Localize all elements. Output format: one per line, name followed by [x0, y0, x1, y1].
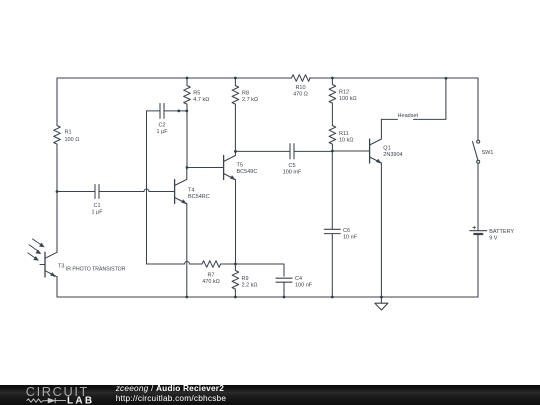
svg-text:C5: C5: [288, 163, 295, 169]
svg-text:zceeong / Audio Reciever2: zceeong / Audio Reciever2: [115, 383, 225, 393]
svg-text:T4: T4: [188, 187, 194, 193]
wire top rail: [57, 77, 478, 79]
svg-text:100 nF: 100 nF: [295, 283, 313, 289]
svg-text:SW1: SW1: [482, 150, 494, 156]
svg-text:4.7 kΩ: 4.7 kΩ: [193, 97, 209, 103]
svg-text:R12: R12: [339, 90, 349, 96]
svg-text:http://circuitlab.com/cbhcsbe: http://circuitlab.com/cbhcsbe: [116, 393, 227, 403]
wire R11 junction to Q1 base: [332, 150, 369, 152]
svg-text:C4: C4: [295, 276, 302, 282]
wire right rail (top): [477, 78, 479, 140]
svg-text:IR PHOTO TRANSISTOR: IR PHOTO TRANSISTOR: [66, 267, 126, 273]
svg-text:Headset: Headset: [398, 113, 419, 119]
svg-text:100 kΩ: 100 kΩ: [339, 96, 357, 102]
svg-text:R10: R10: [295, 85, 305, 91]
svg-text:C6: C6: [343, 228, 350, 234]
svg-text:2.2 kΩ: 2.2 kΩ: [242, 282, 258, 288]
svg-text:BC54RC: BC54RC: [188, 194, 210, 200]
svg-text:T3: T3: [58, 264, 64, 270]
resistor R10: [292, 75, 311, 82]
svg-text:C1: C1: [93, 203, 100, 209]
resistor R12: [329, 78, 336, 126]
svg-text:R5: R5: [193, 90, 200, 96]
capacitor C2: [147, 103, 188, 118]
svg-text:C2: C2: [158, 122, 165, 128]
svg-text:9 V: 9 V: [489, 235, 498, 241]
svg-text:R7: R7: [207, 273, 214, 279]
wire C2 loop to R7 with hop: [147, 262, 203, 265]
resistor R7: [202, 261, 235, 268]
capacitor C1: [95, 185, 99, 199]
resistor R9: [232, 264, 239, 297]
transistor T3 photo: [44, 252, 46, 277]
svg-text:10 kΩ: 10 kΩ: [339, 137, 354, 143]
svg-text:BC549C: BC549C: [237, 169, 258, 175]
svg-text:470 kΩ: 470 kΩ: [202, 279, 220, 285]
svg-text:T5: T5: [237, 163, 243, 169]
svg-text:R8: R8: [242, 90, 249, 96]
wire C2 loop down: [146, 111, 148, 264]
resistor R5: [184, 78, 191, 168]
svg-text:R11: R11: [339, 131, 349, 137]
wire headset: [381, 78, 446, 119]
svg-text:1 µF: 1 µF: [156, 129, 168, 135]
resistor R1: [54, 126, 61, 145]
svg-text:100 mF: 100 mF: [283, 169, 302, 175]
wire battery to bottom rail: [477, 235, 479, 297]
wire R7 junction to C4: [235, 264, 284, 276]
logo resistor-diode glyph: [27, 398, 67, 403]
transistor T4 BC54RC: [174, 180, 176, 204]
svg-text:100 Ω: 100 Ω: [65, 137, 80, 143]
svg-text:R1: R1: [65, 130, 72, 136]
wire bottom rail: [57, 277, 478, 297]
wire SW1 to battery: [477, 163, 479, 230]
transistor Q1 2N3904: [369, 139, 371, 163]
wire C1 to T4 base with hop: [99, 189, 175, 192]
capacitor C6: [324, 151, 340, 297]
light arrows T3: [28, 239, 43, 259]
resistor R8: [232, 78, 239, 151]
svg-text:2.7 kΩ: 2.7 kΩ: [242, 97, 258, 103]
svg-text:2N3904: 2N3904: [383, 152, 402, 158]
svg-text:LAB: LAB: [67, 395, 94, 405]
capacitor C5: [235, 144, 332, 159]
svg-text:10 nF: 10 nF: [343, 235, 358, 241]
svg-text:Q1: Q1: [383, 145, 390, 151]
transistor T5 BC549C: [223, 156, 225, 180]
switch SW1: [473, 142, 478, 161]
svg-text:470 Ω: 470 Ω: [293, 92, 308, 98]
svg-text:BATTERY: BATTERY: [489, 229, 514, 235]
wire left rail: [56, 78, 58, 252]
wire T4 collector to T5 base: [187, 167, 224, 169]
wire T4 base from left rail: [57, 191, 95, 193]
battery BATTERY 9V: [470, 230, 487, 232]
capacitor C4: [276, 278, 292, 297]
svg-text:R9: R9: [242, 276, 249, 282]
svg-text:1 µF: 1 µF: [91, 210, 103, 216]
ground: [375, 297, 388, 310]
resistor R11: [329, 126, 336, 152]
